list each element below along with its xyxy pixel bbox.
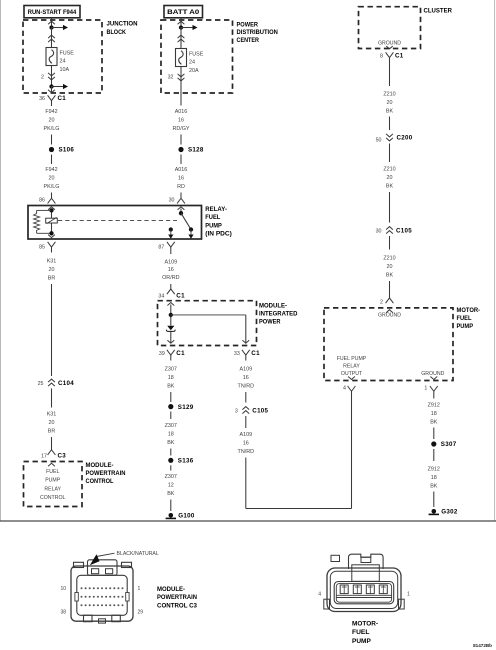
page frame right edge [494, 0, 496, 521]
svg-text:C1: C1 [395, 53, 404, 60]
svg-text:PUMP: PUMP [205, 222, 222, 229]
connector fork pin 85 [39, 242, 55, 253]
connector C3 pin 17 [41, 450, 66, 460]
svg-text:CENTER: CENTER [237, 37, 260, 44]
relay pin 30 entry chevron [178, 207, 185, 210]
svg-text:87: 87 [158, 244, 164, 250]
wire to S106 [51, 135, 53, 145]
svg-text:20: 20 [387, 100, 393, 106]
svg-text:PUMP: PUMP [457, 323, 474, 330]
svg-text:BR: BR [48, 276, 56, 282]
splice S307 [431, 441, 457, 448]
mip wire diode to edge [170, 331, 172, 342]
relay label [205, 206, 232, 237]
splice S129 [168, 404, 194, 411]
svg-text:POWERTRAIN: POWERTRAIN [157, 594, 197, 601]
cluster ground pin label [378, 40, 401, 46]
wire label Z912 18 BK (2) [428, 467, 440, 490]
connector C105 pin 3 [235, 407, 269, 415]
mip internal wire down [170, 305, 172, 326]
svg-text:1: 1 [138, 586, 141, 592]
connector fork pin 2 (pump ground) [380, 298, 393, 305]
fuse F24 labels [60, 51, 75, 73]
svg-text:39: 39 [159, 351, 165, 357]
svg-text:18: 18 [431, 411, 437, 417]
motor-fuel pump label [457, 307, 481, 330]
splice S128 [178, 147, 204, 154]
relay pin 86 entry chevron [48, 207, 55, 210]
pump ground pin label (bottom) [421, 371, 444, 377]
pin 2 label (fuse output) [41, 74, 44, 80]
motor-fuel pump connector label [352, 620, 378, 645]
svg-text:A109: A109 [240, 367, 253, 373]
svg-text:32: 32 [168, 74, 174, 80]
svg-text:81472Bb: 81472Bb [473, 643, 492, 648]
relay switch arm [181, 213, 191, 229]
wire S136 down [170, 465, 172, 470]
diode (mip internal) [166, 326, 175, 332]
svg-text:(IN PDC): (IN PDC) [205, 230, 232, 237]
node RUN-START F944 label box [24, 6, 80, 18]
svg-text:4: 4 [318, 592, 321, 598]
connector C200 pin 50 [376, 134, 413, 144]
fuse F24 junction block [46, 48, 57, 66]
node mip junction dot [169, 313, 173, 317]
node junction dot pdc [179, 25, 183, 29]
wire S128 down [180, 155, 182, 165]
bus connection chevrons [48, 35, 55, 42]
wire label Z307 12 BK [165, 474, 177, 497]
svg-text:F942: F942 [45, 167, 57, 173]
svg-text:25: 25 [38, 381, 44, 387]
pump ground pin label (top) [378, 313, 401, 319]
node BATT A0 label box [164, 6, 203, 18]
mip entry chevron [167, 303, 174, 306]
svg-text:BK: BK [386, 109, 394, 115]
wire label A016 16 RD [175, 167, 188, 190]
svg-text:BR: BR [48, 429, 56, 435]
svg-text:24: 24 [60, 59, 66, 65]
wire label Z210 20 BK (2) [383, 167, 395, 190]
svg-text:2: 2 [380, 299, 383, 305]
relay coil zigzag [34, 210, 52, 233]
svg-text:OR/RD: OR/RD [162, 275, 179, 281]
svg-text:GROUND: GROUND [421, 371, 444, 377]
connector C1 pin 39 [159, 350, 185, 361]
svg-text:G100: G100 [178, 513, 195, 520]
document number [473, 643, 492, 648]
wire batt into pdc [180, 18, 182, 28]
relay pin 85 exit chevron [48, 235, 55, 238]
node junction dot bottom-left [49, 84, 53, 88]
wire label A109 16 TN/RD (1) [238, 367, 255, 390]
svg-text:8: 8 [380, 54, 383, 60]
pump exit chevron pin 4 [348, 377, 355, 380]
pump relay output pin label [337, 356, 367, 377]
svg-text:BK: BK [386, 184, 394, 190]
wire to G302 [433, 492, 435, 508]
svg-text:JUNCTION: JUNCTION [107, 21, 138, 28]
svg-text:C105: C105 [252, 408, 268, 415]
connector C1 pin 34 [158, 289, 185, 299]
svg-text:POWER: POWER [259, 319, 281, 326]
svg-text:CONTROL C3: CONTROL C3 [157, 602, 197, 609]
svg-text:BK: BK [386, 273, 394, 279]
splice S106 [49, 147, 75, 154]
wire C104 down [51, 389, 53, 408]
relay contact 87 arrow [168, 230, 173, 239]
svg-text:85: 85 [39, 244, 45, 250]
svg-text:S106: S106 [59, 147, 75, 154]
wire label A109 16 OR/RD [162, 259, 179, 281]
svg-text:18: 18 [168, 375, 174, 381]
svg-text:F942: F942 [45, 109, 57, 115]
connector drawing motor-fuel pump [324, 554, 404, 611]
svg-text:POWERTRAIN: POWERTRAIN [86, 470, 126, 477]
relay switch common wire [180, 209, 182, 214]
wire fuse to pdc edge [180, 67, 182, 94]
svg-text:A016: A016 [175, 109, 188, 115]
svg-text:29: 29 [138, 609, 144, 615]
svg-text:INTEGRATED: INTEGRATED [259, 310, 298, 317]
pin 32 label (pdc fuse output) [168, 74, 174, 80]
pump exit chevron pin 1 [430, 377, 437, 380]
svg-text:FUEL: FUEL [457, 315, 472, 322]
svg-text:C104: C104 [58, 380, 74, 387]
svg-text:20: 20 [387, 175, 393, 181]
pcm entry chevron [48, 463, 55, 466]
node relay coil bottom dot [49, 231, 53, 235]
svg-text:BLOCK: BLOCK [107, 29, 127, 36]
svg-text:CLUSTER: CLUSTER [424, 7, 453, 14]
relay box (fuel pump relay) [28, 206, 202, 240]
wire label A109 16 TN/RD (2) [238, 432, 255, 455]
svg-text:30: 30 [376, 229, 382, 235]
svg-text:C1: C1 [176, 350, 185, 357]
wire S307 down [433, 449, 435, 461]
svg-text:MODULE-: MODULE- [259, 302, 287, 309]
wire to relay pin 30 [180, 193, 182, 199]
svg-text:50: 50 [376, 138, 382, 144]
connector C104 pin 25 [38, 379, 75, 387]
wire to S136 [170, 449, 172, 456]
wire label Z307 18 BK (1) [165, 367, 177, 390]
node relay contact right dot [189, 227, 193, 231]
svg-text:PUMP: PUMP [45, 478, 61, 484]
svg-text:TN/RD: TN/RD [238, 449, 255, 455]
callout black/natural [90, 551, 159, 565]
svg-text:PK/LG: PK/LG [44, 126, 60, 132]
connector fork pin 86 [39, 198, 55, 204]
wire to G100 [170, 500, 172, 512]
splice S136 [168, 458, 194, 465]
svg-text:38: 38 [60, 609, 66, 615]
module-integrated power label [259, 302, 298, 325]
svg-text:18: 18 [431, 475, 437, 481]
svg-text:RD/GY: RD/GY [172, 126, 189, 132]
svg-text:MOTOR-: MOTOR- [352, 620, 378, 627]
svg-text:RUN-START F944: RUN-START F944 [28, 9, 77, 16]
relay coil core box [46, 217, 58, 223]
wire label F942 20 PK/LG (lower) [44, 167, 60, 190]
wire C105 down [245, 416, 247, 428]
wire to bus chevrons [51, 28, 53, 48]
pcm pin function label [40, 469, 65, 501]
wire to relay pin 86 [51, 193, 53, 199]
wire C200 down [389, 144, 391, 163]
svg-text:Z912: Z912 [428, 403, 440, 409]
svg-text:K31: K31 [47, 412, 57, 418]
power distribution center label [237, 21, 279, 44]
cluster box [359, 7, 421, 49]
bus connection chevrons pdc [178, 35, 185, 42]
svg-text:CONTROL: CONTROL [40, 495, 65, 501]
svg-text:POWER: POWER [237, 21, 259, 28]
fuse F24 pdc labels [189, 52, 204, 74]
connector fork pin 1 [424, 386, 437, 399]
svg-text:FUSE: FUSE [60, 51, 75, 57]
svg-text:34: 34 [158, 293, 164, 299]
cluster exit chevron [386, 46, 392, 49]
wire dot to box edge [51, 87, 53, 93]
module-powertrain control label [86, 462, 126, 485]
svg-text:FUEL: FUEL [46, 469, 59, 475]
svg-text:Z210: Z210 [383, 92, 395, 98]
svg-text:Z210: Z210 [383, 256, 395, 262]
svg-text:10: 10 [60, 586, 66, 592]
svg-text:4: 4 [343, 386, 346, 392]
wire label Z307 18 BK (2) [165, 423, 177, 446]
connector pump pin labels [318, 592, 410, 598]
junction block box [23, 20, 102, 93]
wire S129 down [170, 412, 172, 420]
svg-text:GROUND: GROUND [378, 40, 401, 46]
svg-text:A109: A109 [240, 432, 253, 438]
svg-text:RELAY-: RELAY- [205, 206, 227, 213]
wire to S307 [433, 428, 435, 440]
wire to C105 [245, 392, 247, 403]
wire label Z210 20 BK (1) [383, 92, 395, 115]
svg-text:MODULE-: MODULE- [157, 586, 185, 593]
svg-text:12: 12 [168, 483, 174, 489]
svg-text:GROUND: GROUND [378, 313, 401, 319]
ground G100 [166, 513, 195, 520]
svg-text:A016: A016 [175, 167, 188, 173]
wire to C200 [389, 117, 391, 131]
wire label Z210 20 BK (3) [383, 256, 395, 279]
svg-text:G302: G302 [441, 509, 458, 516]
separator line [0, 520, 496, 522]
svg-text:PUMP: PUMP [352, 638, 371, 645]
svg-text:BLACK/NATURAL: BLACK/NATURAL [117, 551, 159, 557]
node junction dot top-left [49, 25, 53, 29]
svg-text:C1: C1 [251, 350, 260, 357]
svg-text:18: 18 [168, 432, 174, 438]
entry chevron pdc top [178, 21, 185, 24]
power distribution center box [161, 20, 233, 93]
svg-text:Z307: Z307 [165, 474, 177, 480]
wire pin85 long run [51, 284, 53, 376]
wire A109 to pump (L-run) [246, 391, 352, 508]
svg-text:16: 16 [178, 118, 184, 124]
svg-text:BK: BK [430, 420, 438, 426]
svg-text:33: 33 [234, 351, 240, 357]
wire label A016 16 RD/GY [172, 109, 189, 132]
svg-text:C200: C200 [397, 135, 413, 142]
svg-text:24: 24 [189, 60, 195, 66]
svg-text:FUEL: FUEL [205, 214, 220, 221]
svg-text:16: 16 [243, 375, 249, 381]
svg-text:36: 36 [39, 96, 45, 102]
motor-fuel pump box [324, 308, 453, 381]
relay internal dashed link [58, 220, 177, 222]
connector C1 pin 36 [39, 95, 66, 106]
svg-text:16: 16 [243, 441, 249, 447]
wire to pdc bus chevrons [180, 28, 182, 49]
svg-text:BK: BK [430, 484, 438, 490]
svg-text:S307: S307 [441, 441, 457, 448]
wire to integrated power [170, 284, 172, 289]
svg-text:16: 16 [168, 267, 174, 273]
node relay contact 87 dot [169, 227, 173, 231]
module-powertrain control box [24, 462, 83, 507]
svg-text:2: 2 [41, 74, 44, 80]
wire fuse to lower dot [51, 66, 53, 87]
mip left exit chevron [167, 340, 174, 343]
arrow feed right lower (junction block) [52, 84, 69, 89]
wire run-start into junction block [51, 18, 53, 28]
svg-text:20A: 20A [189, 68, 199, 74]
svg-text:C1: C1 [176, 292, 185, 299]
svg-text:FUEL PUMP: FUEL PUMP [337, 356, 367, 362]
svg-text:BK: BK [167, 491, 175, 497]
svg-text:17: 17 [41, 454, 47, 460]
svg-text:C1: C1 [58, 95, 67, 102]
connector fork pin 87 [158, 242, 174, 254]
wire to pcm [51, 437, 53, 450]
wire label Z912 18 BK (1) [428, 403, 440, 426]
arrow feed right (junction block) [52, 25, 69, 30]
svg-text:RD: RD [177, 184, 185, 190]
svg-text:20: 20 [49, 420, 55, 426]
wire pdc to A016 label [180, 93, 182, 106]
svg-text:30: 30 [169, 198, 175, 204]
svg-text:16: 16 [178, 176, 184, 182]
svg-text:OUTPUT: OUTPUT [341, 371, 363, 377]
connector fork pin 30 [169, 198, 185, 204]
svg-text:BK: BK [167, 384, 175, 390]
svg-text:S128: S128 [188, 147, 204, 154]
svg-text:FUEL: FUEL [352, 629, 369, 636]
page frame left edge [0, 0, 2, 521]
svg-text:1: 1 [407, 592, 410, 598]
svg-text:20: 20 [387, 264, 393, 270]
svg-text:A109: A109 [165, 259, 178, 265]
junction block label [107, 21, 138, 36]
svg-text:BATT A0: BATT A0 [167, 9, 199, 16]
connector C1 pin 33 [234, 350, 260, 361]
svg-text:CONTROL: CONTROL [86, 478, 114, 485]
svg-text:1: 1 [424, 386, 427, 392]
node relay switch pivot dot [179, 211, 183, 215]
svg-text:10A: 10A [60, 67, 70, 73]
svg-text:Z912: Z912 [428, 467, 440, 473]
svg-text:FUSE: FUSE [189, 52, 204, 58]
wire to S128 [180, 135, 182, 145]
connector C105 pin 30 [376, 227, 413, 235]
svg-text:20: 20 [49, 118, 55, 124]
connector fork pin 4 [343, 386, 355, 392]
svg-text:86: 86 [39, 198, 45, 204]
relay contact right arrow [188, 230, 193, 239]
svg-text:MODULE-: MODULE- [86, 462, 114, 469]
wire to pump pin 2 [389, 281, 391, 298]
wire label F942 20 PK/LG (upper) [44, 109, 60, 132]
mip branch exit chevron [242, 340, 249, 343]
exit chevron junction block bottom [48, 90, 55, 93]
svg-text:Z307: Z307 [165, 367, 177, 373]
svg-text:C3: C3 [58, 453, 67, 460]
module-integrated power box [158, 301, 257, 346]
wire S106 down [51, 155, 53, 165]
pump entry chevron [386, 310, 393, 313]
wire label K31 20 BR (upper) [47, 259, 57, 282]
svg-text:TN/RD: TN/RD [238, 384, 255, 390]
svg-text:K31: K31 [47, 259, 57, 265]
svg-text:S136: S136 [178, 458, 194, 465]
svg-text:20: 20 [49, 267, 55, 273]
connector drawing module-powertrain control C3 [71, 560, 133, 623]
svg-text:S129: S129 [178, 404, 194, 411]
fuse F24 pdc [176, 49, 187, 67]
svg-text:PK/LG: PK/LG [44, 184, 60, 190]
cluster label [424, 7, 453, 14]
svg-text:Z307: Z307 [165, 423, 177, 429]
svg-text:3: 3 [235, 409, 238, 415]
node relay coil top dot [49, 208, 53, 212]
connector chevrons below fuse [48, 73, 55, 80]
svg-text:20: 20 [49, 176, 55, 182]
wire C105 down (cluster) [389, 236, 391, 250]
svg-text:RELAY: RELAY [44, 486, 61, 492]
svg-text:MOTOR-: MOTOR- [457, 307, 481, 314]
svg-text:C105: C105 [396, 228, 412, 235]
svg-text:BK: BK [167, 440, 175, 446]
connector chevrons below pdc fuse [178, 74, 185, 81]
mip branch wire right+down [171, 315, 246, 343]
connector C1 pin 8 (cluster) [380, 52, 404, 86]
arrow feed right (pdc) [181, 25, 198, 30]
entry chevron junction block top [48, 21, 55, 24]
svg-text:DISTRIBUTION: DISTRIBUTION [237, 29, 279, 36]
relay coil feed wire [51, 209, 53, 234]
svg-text:RELAY: RELAY [343, 364, 360, 370]
wire label K31 20 BR (lower) [47, 412, 57, 435]
wire to C105 (cluster) [389, 192, 391, 223]
wire to S129 [170, 392, 172, 402]
connector C3 pin labels [60, 586, 143, 616]
module-powertrain control C3 label [157, 586, 197, 609]
svg-text:Z210: Z210 [383, 167, 395, 173]
ground G302 [429, 509, 458, 516]
